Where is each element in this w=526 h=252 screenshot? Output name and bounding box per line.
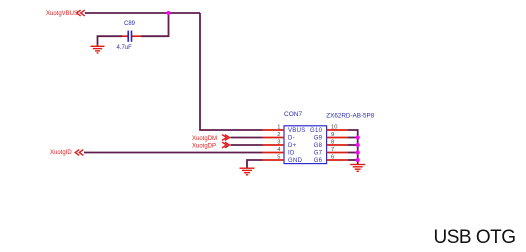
capacitor C89 [122, 31, 142, 42]
svg-text:2: 2 [277, 132, 280, 138]
svg-text:G7: G7 [314, 151, 323, 157]
svg-text:G9: G9 [314, 136, 323, 142]
junction pin 8 [356, 143, 360, 147]
svg-text:C89: C89 [124, 21, 136, 27]
svg-text:8: 8 [331, 140, 334, 146]
junction pin 7 [356, 150, 360, 154]
pin 2 stub [263, 137, 285, 139]
wire pin 5 to ground [247, 160, 263, 168]
svg-text:7: 7 [331, 147, 334, 153]
svg-text:USB OTG: USB OTG [434, 227, 516, 248]
svg-text:G6: G6 [314, 158, 323, 164]
svg-text:CON7: CON7 [284, 111, 302, 118]
svg-text:10: 10 [331, 125, 337, 131]
svg-text:6: 6 [331, 155, 334, 161]
wire capacitor to ground [98, 36, 123, 46]
pin 10 stub [327, 129, 348, 131]
pin 1 stub [263, 129, 285, 131]
wire VBUS vertical to pin 1 [200, 13, 263, 130]
svg-text:GND: GND [288, 158, 303, 164]
wire pin 10 to ground bus [348, 130, 358, 165]
pin 5 stub [263, 159, 285, 161]
wire XuotgID to pin 4 [84, 152, 263, 154]
junction pin 9 [356, 135, 360, 139]
connector CON7 body [284, 126, 327, 164]
svg-text:XuotgDP: XuotgDP [192, 143, 216, 149]
wire XuotgVBUS horizontal [85, 12, 200, 14]
pin 7 stub [327, 152, 348, 154]
wire junction down to capacitor [141, 13, 169, 36]
junction at VBUS/C89 [166, 11, 170, 15]
junction pin 6 [356, 158, 360, 162]
wire pin 7 to bus [348, 152, 358, 154]
svg-text:VBUS: VBUS [288, 128, 306, 134]
net label XuotgID [50, 150, 83, 157]
pin 8 stub [327, 144, 348, 146]
svg-text:3: 3 [277, 140, 280, 146]
pin 3 stub [263, 144, 285, 146]
ground (capacitor) [91, 44, 105, 53]
wire pin 8 to bus [348, 144, 358, 146]
net label XuotgVBUS [46, 10, 85, 17]
svg-text:5: 5 [277, 155, 280, 161]
wire XuotgDP to pin 3 [231, 144, 263, 146]
svg-text:XuotgID: XuotgID [50, 150, 72, 156]
svg-text:G8: G8 [314, 143, 323, 149]
svg-text:XuotgVBUS: XuotgVBUS [46, 11, 78, 17]
svg-text:G10: G10 [310, 128, 323, 134]
svg-text:ZX62RD-AB-5P8: ZX62RD-AB-5P8 [326, 112, 374, 119]
svg-text:9: 9 [331, 132, 334, 138]
wire XuotgDM to pin 2 [231, 137, 263, 139]
pin 9 stub [327, 137, 348, 139]
pin 4 stub [263, 152, 285, 154]
ground (right bus) [350, 165, 365, 172]
svg-text:4.7uF: 4.7uF [117, 45, 133, 51]
svg-text:1: 1 [277, 125, 280, 131]
wire pin 6 to bus [348, 159, 358, 161]
svg-text:ID: ID [288, 151, 295, 157]
svg-text:XuotgDM: XuotgDM [192, 136, 217, 142]
svg-text:D-: D- [288, 136, 295, 142]
wire pin 9 to bus [348, 137, 358, 139]
ground (pin 5) [240, 168, 255, 175]
net label XuotgDM [192, 135, 230, 142]
svg-text:D+: D+ [288, 143, 297, 149]
pin 6 stub [327, 159, 348, 161]
net label XuotgDP [192, 142, 230, 149]
